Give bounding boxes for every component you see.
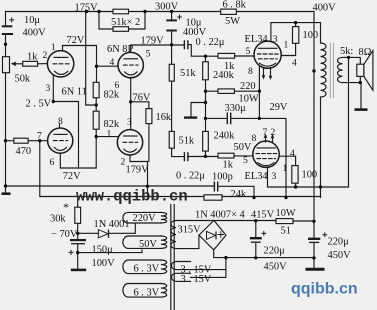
svg-text:220μ: 220μ [328,237,350,248]
svg-text:300V: 300V [155,2,179,13]
svg-text:100: 100 [303,30,319,41]
svg-text:6N 11: 6N 11 [62,87,87,98]
svg-text:1k: 1k [224,61,235,72]
svg-text:470: 470 [16,146,32,157]
svg-text:1: 1 [51,42,56,53]
svg-text:4: 4 [290,148,295,159]
svg-text:82k: 82k [104,90,120,101]
svg-text:72V: 72V [67,35,85,46]
svg-text:1k: 1k [27,52,38,63]
svg-text:7: 7 [37,131,42,142]
svg-text:330μ: 330μ [225,103,247,114]
svg-text:51k: 51k [179,136,195,147]
svg-text:www.qqibb.cn: www.qqibb.cn [76,188,188,206]
svg-text:51k× 2: 51k× 2 [111,17,140,28]
svg-text:400V: 400V [23,28,47,39]
svg-text:5: 5 [246,46,251,57]
svg-text:50V: 50V [234,142,252,153]
svg-text:1: 1 [107,129,112,140]
svg-text:8: 8 [248,66,253,77]
svg-text:4: 4 [292,58,297,69]
svg-text:51k: 51k [180,68,196,79]
svg-text:220μ: 220μ [264,246,286,257]
svg-text:315V: 315V [178,225,202,236]
svg-text:6N 8P: 6N 8P [107,44,133,55]
svg-text:10W: 10W [276,208,296,219]
svg-text:415V: 415V [251,210,275,221]
svg-text:0 . 22μ: 0 . 22μ [196,37,225,48]
svg-text:3: 3 [273,34,278,45]
svg-text:100p: 100p [212,172,233,183]
svg-text:100: 100 [302,170,318,181]
svg-text:5k:: 5k: [340,46,353,57]
svg-text:5W: 5W [225,16,240,27]
svg-text:0 . 22μ: 0 . 22μ [176,171,205,182]
svg-text:175V: 175V [75,3,99,14]
svg-text:82k: 82k [104,119,120,130]
svg-text:EL34: EL34 [245,34,269,45]
svg-text:3: 3 [46,83,51,94]
svg-text:3 . 15V: 3 . 15V [181,274,212,285]
svg-text:6: 6 [50,157,55,168]
svg-text:450V: 450V [264,262,288,273]
svg-text:2: 2 [121,157,126,168]
svg-text:qqibb.cn: qqibb.cn [291,281,358,298]
svg-text:450V: 450V [328,250,352,261]
svg-text:2: 2 [43,50,48,61]
svg-text:150μ: 150μ [92,245,114,256]
svg-text:6 . 8k: 6 . 8k [223,0,247,11]
svg-text:8: 8 [58,116,63,127]
svg-text:72V: 72V [63,171,81,182]
svg-text:8Ω: 8Ω [359,47,372,58]
svg-text:10μ: 10μ [24,15,40,26]
svg-text:*: * [63,200,69,214]
svg-text:220V: 220V [133,213,157,224]
svg-text:1N 4007× 4: 1N 4007× 4 [195,210,246,221]
svg-text:179V: 179V [126,165,150,176]
svg-text:29V: 29V [270,102,288,113]
svg-text:1N 4001: 1N 4001 [94,219,130,230]
svg-text:− 70V: − 70V [51,229,78,240]
svg-text:50V: 50V [139,239,157,250]
svg-text:51: 51 [281,226,291,237]
svg-text:2 . 5V: 2 . 5V [26,99,52,110]
svg-text:1: 1 [283,163,288,174]
svg-text:8: 8 [252,133,257,144]
svg-text:EL34: EL34 [245,171,269,182]
svg-text:3: 3 [127,117,132,128]
svg-text:24k: 24k [231,189,247,200]
svg-text:5: 5 [146,49,151,60]
svg-text:400V: 400V [313,3,337,14]
svg-text:6 . 3V: 6 . 3V [134,264,160,275]
svg-text:1k: 1k [223,160,234,171]
svg-text:30k: 30k [50,214,66,225]
svg-text:6 . 3V: 6 . 3V [134,288,160,299]
svg-text:2: 2 [271,127,276,138]
svg-text:4: 4 [110,57,115,68]
svg-text:7: 7 [263,127,268,138]
svg-text:1: 1 [284,40,289,51]
svg-text:240k: 240k [214,131,236,142]
svg-text:220: 220 [240,81,256,92]
svg-text:50k: 50k [15,74,31,85]
svg-text:100V: 100V [92,258,116,269]
svg-text:179V: 179V [141,36,165,47]
svg-text:5: 5 [243,155,248,166]
svg-text:3: 3 [272,171,277,182]
svg-text:16k: 16k [156,112,172,123]
svg-text:76V: 76V [133,93,151,104]
